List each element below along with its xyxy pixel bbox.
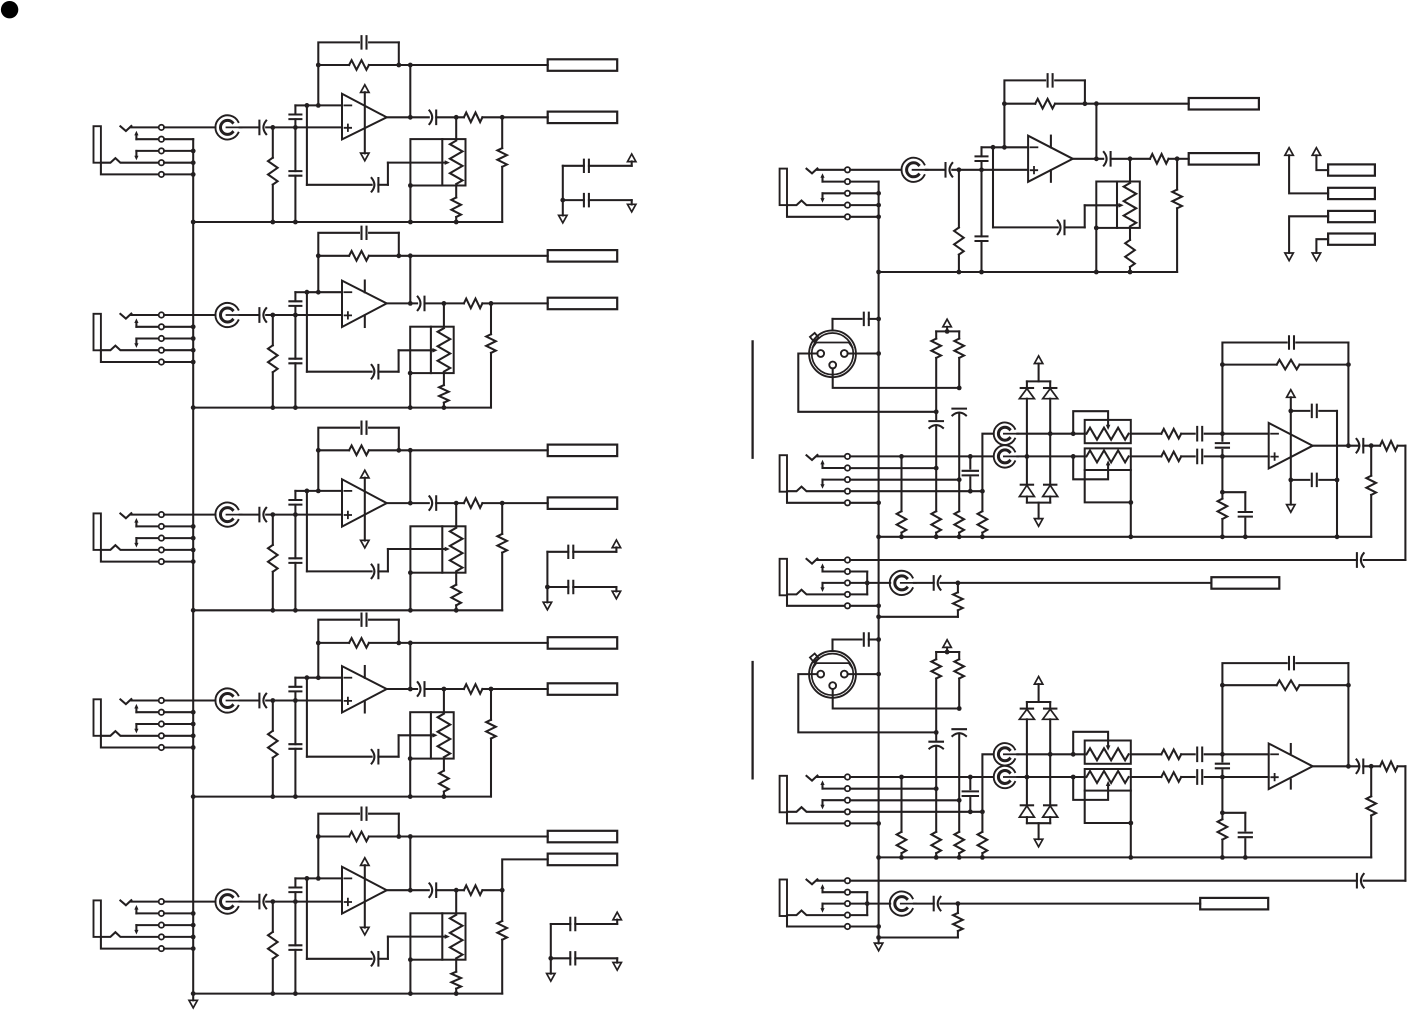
line input jack (mic ch 1) tip contact xyxy=(807,455,818,460)
aux 2 return line capacitor xyxy=(850,880,1357,882)
wire net to V- B xyxy=(1316,239,1328,253)
aux 2 row5 wire to bus xyxy=(850,925,879,927)
channel 1 send net label wire xyxy=(410,64,547,66)
channel 1 wiper feed capacitor xyxy=(372,178,379,192)
channel 6 node junction xyxy=(957,167,962,172)
channel 2 bus junctions xyxy=(191,324,196,364)
mic output shunt resistor (ch 1) xyxy=(1370,446,1372,476)
line input jack (mic ch 1) terminals xyxy=(845,454,850,506)
V+ supply arrow B xyxy=(1312,148,1320,156)
channel 1 input jack J1 sleeve wire xyxy=(101,163,159,175)
channel 1 output shunt resistor xyxy=(501,117,503,148)
left ground bus xyxy=(192,139,194,1000)
clamp diode lower x1050.2 (mic ch 2) xyxy=(1044,804,1056,806)
channel 3 wire cap to node xyxy=(266,514,295,516)
mic preamp supply tick bottom (ch 2) xyxy=(1290,780,1292,789)
aux jack 1 terminals xyxy=(845,557,850,608)
channel 5 decoupling capacitor to rail xyxy=(294,902,296,946)
phantom supply arrow 1 xyxy=(943,319,951,327)
V- supply arrow B xyxy=(1312,253,1320,261)
mic output series resistor (ch 2) xyxy=(1380,762,1398,772)
channel 5 level pot VR5 xyxy=(215,890,241,914)
phantom resistor left 2 xyxy=(935,652,937,659)
channel 5 jack wires to bus xyxy=(164,913,193,948)
channel 5 wire jack tip to pot xyxy=(164,901,215,903)
channel 3 output wire xyxy=(387,502,429,504)
channel 1 output wire xyxy=(387,116,429,118)
channel 3 feedback resistor xyxy=(318,449,349,451)
gain trim gang A box (mic ch 1) xyxy=(1085,420,1131,443)
aux jack 2 ring contact xyxy=(787,911,845,916)
channel 3 fader pot (boxed) xyxy=(410,526,465,572)
channel 2 input jack J2 tip contact xyxy=(120,314,131,319)
V+ supply arrow A xyxy=(1285,148,1293,156)
gang B wiper (mic ch 2) xyxy=(1073,777,1108,800)
mic output coupling capacitor (ch 1) xyxy=(1357,439,1364,453)
channel 3 wire jack tip to pot xyxy=(164,514,215,516)
channel 2 fader ground corner xyxy=(408,371,413,376)
decoupling group A supply wire xyxy=(562,166,564,200)
signal line A to limiter (mic ch 2) xyxy=(1017,753,1084,755)
channel 5 inverting input wire xyxy=(307,877,342,879)
channel 4 input jack J4 sleeve wire xyxy=(101,736,159,748)
channel 6 bus junctions xyxy=(876,191,881,219)
channel 3 wire cap to fader xyxy=(436,502,464,504)
channel 2 output net label wire xyxy=(491,302,548,304)
channel 1 output net label box xyxy=(548,112,618,124)
mic output series resistor (ch 1) xyxy=(1380,441,1398,451)
gain trim gang B box (mic ch 1) xyxy=(1085,448,1131,470)
mic preamp bypass capacitor lower (ch 1) xyxy=(1291,479,1310,481)
mic preamp feedback resistor (ch 2) xyxy=(1222,684,1276,686)
channel 1 positive supply arrow xyxy=(361,85,369,93)
channel 5 bus junctions xyxy=(191,911,196,951)
decoupling group C positive bypass capacitor xyxy=(551,923,571,925)
channel 1 input jack J1 tip contact xyxy=(120,126,131,131)
mic gain pot A (ch 1) xyxy=(994,423,1018,445)
channel 4 output coupling capacitor xyxy=(418,682,425,696)
aux jack 1 tip switch arm xyxy=(821,567,823,571)
channel 4 HF filter capacitor xyxy=(294,678,296,687)
mic preamp op-amp (ch 2) xyxy=(1222,753,1268,755)
mic output shunt resistor (ch 2) xyxy=(1370,766,1372,796)
XLR mic connector 1 xyxy=(809,330,856,377)
channel 2 input shunt resistor xyxy=(272,315,274,345)
clamp bottom bracket (mic ch 1) xyxy=(1027,502,1050,504)
channel 6 input jack J6 ring contact xyxy=(787,201,845,206)
channel 3 wiper feed capacitor xyxy=(372,565,379,579)
mic ch 2 jack row wires xyxy=(850,777,993,823)
aux jack 2 tip contact xyxy=(807,879,818,884)
channel 2 feedback resistor xyxy=(318,255,349,257)
mic dc block capacitor right 2 xyxy=(952,729,966,736)
XLR 1 shell capacitor to bus xyxy=(831,319,833,331)
channel 5 fader wiper arrow xyxy=(388,936,446,938)
mic 2 output to line-out corner wire xyxy=(1404,766,1406,880)
clamp diode upper x1026.9 (mic ch 1) xyxy=(1026,381,1028,388)
decoupling group C negative supply arrow xyxy=(613,963,621,971)
channel 2 input jack J2 sleeve body xyxy=(94,314,101,351)
channel 2 wire jack tip to pot xyxy=(164,314,215,316)
channel 1 input jack J1 tip switch arm xyxy=(135,135,137,139)
aux jack 1 tip contact xyxy=(807,559,818,564)
channel 6 input jack J6 sleeve body xyxy=(780,169,787,206)
channel 3 positive supply arrow xyxy=(361,470,369,478)
channel 4 fader wiper arrow xyxy=(399,734,434,736)
channel 4 wiper feed wire xyxy=(306,678,308,757)
channel 6 wiper feed wire xyxy=(992,147,994,227)
channel 2 supply tick top xyxy=(364,281,366,293)
channel 2 fader lower resistor xyxy=(443,373,445,385)
wire V+ to net B+ xyxy=(1289,155,1328,193)
channel 5 send net label wire xyxy=(410,835,547,837)
channel 5 output shunt resistor xyxy=(501,890,503,921)
XLR 1 pin 3 wire xyxy=(833,368,960,388)
channel 4 feedback to output wire xyxy=(409,643,411,689)
channel 3 output net label box xyxy=(548,497,618,509)
power net label boxes xyxy=(1328,164,1375,244)
channel 5 wire cap to node xyxy=(266,901,295,903)
aux jack 2 terminals xyxy=(845,878,850,929)
mic ground rail (ch 2) xyxy=(879,856,1372,858)
channel 4 fader ground corner xyxy=(408,756,413,761)
mic 1 output to aux corner wire xyxy=(1404,446,1406,560)
channel 3 bus junctions xyxy=(191,524,196,564)
gain pot A feed wire (mic ch 1) xyxy=(982,434,993,492)
aux 1 return line capacitor xyxy=(850,559,1357,561)
channel 4 supply tick bottom xyxy=(364,701,366,713)
channel 3 input jack J3 ring switch arm xyxy=(135,538,137,543)
channel 2 input jack J2 ring contact xyxy=(101,346,159,351)
channel 1 bus junctions xyxy=(191,149,196,177)
channel 5 positive supply arrow xyxy=(361,858,369,866)
channel 2 decoupling capacitor to rail xyxy=(294,315,296,359)
clamp V- arrow (mic ch 2) xyxy=(1034,839,1042,847)
input shunt resistor 3 (mic ch 2) xyxy=(958,800,960,832)
channel 6 wire to fader top xyxy=(1129,159,1131,182)
channel 4 output net label wire xyxy=(491,688,548,690)
channel 5 wiper feed capacitor xyxy=(372,952,379,966)
channel 2 input jack J2 tip switch arm xyxy=(135,322,137,326)
channel 6 fader pot (boxed) xyxy=(1096,182,1140,228)
channel 5 feedback capacitor xyxy=(318,814,359,879)
aux 1 ground return wire xyxy=(879,616,958,618)
mic preamp feedback capacitor (ch 2) xyxy=(1222,663,1286,754)
channel 5 feedback resistor xyxy=(318,835,349,837)
channel 5 input jack J5 ring switch arm xyxy=(135,925,137,930)
channel 2 jack wires to bus xyxy=(164,327,193,362)
channel 4 jack wires to bus xyxy=(164,712,193,747)
line input jack (mic ch 1) sleeve body xyxy=(780,455,787,492)
series resistor A (mic ch 1) xyxy=(1131,433,1162,435)
clamp top bracket (mic ch 1) xyxy=(1038,364,1040,382)
channel 1 supply rail line xyxy=(364,92,366,153)
channel 4 send net label wire xyxy=(410,642,547,644)
mic preamp op-amp (ch 1) xyxy=(1222,433,1268,435)
channel 6 feedback resistor xyxy=(1004,103,1035,105)
mic dc block capacitor right 1 xyxy=(952,409,966,416)
decoupling group B ground arrow xyxy=(543,602,551,610)
channel 1 output net label wire xyxy=(502,116,548,118)
gang A wiper (mic ch 1) xyxy=(1073,411,1108,434)
mic gain pot A (ch 2) xyxy=(994,743,1018,765)
channel 2 output wire xyxy=(387,302,417,304)
channel 6 output shunt resistor xyxy=(1176,159,1178,190)
channel 4 input jack J4 tip switch arm xyxy=(135,708,137,712)
channel 5 HF filter capacitor xyxy=(294,878,296,887)
monitor channel send net label wire xyxy=(1097,103,1189,105)
channel 5 output coupling capacitor xyxy=(429,883,436,897)
decoupling group B negative supply arrow xyxy=(612,591,620,599)
mic dc block capacitor left 2 xyxy=(935,732,937,739)
channel 2 send net label box xyxy=(548,250,618,262)
mic ch 1 jack row wires xyxy=(850,456,993,502)
channel 5 op-amp U5 xyxy=(342,867,387,914)
channel 3 input jack J3 terminals xyxy=(159,512,164,564)
channel 3 feedback to output wire xyxy=(409,450,411,503)
line input jack (mic ch 2) tip switch arm xyxy=(821,784,823,788)
channel 3 output coupling capacitor xyxy=(429,496,436,510)
channel 3 coupling capacitor xyxy=(240,514,260,516)
XLR 1 pin 2 wire xyxy=(798,354,936,412)
V- supply arrow A xyxy=(1285,253,1293,261)
channel 3 send net label box xyxy=(548,445,618,457)
aux jack 1 sleeve body xyxy=(780,559,787,596)
gang shield box (mic ch 2) xyxy=(1085,791,1131,823)
series capacitor A (mic ch 1) xyxy=(1197,427,1202,441)
channel 5 input shunt resistor xyxy=(272,902,274,932)
channel 5 input jack J5 tip contact xyxy=(120,900,131,905)
interstage capacitor (mic ch 1) xyxy=(1221,434,1223,441)
channel 3 op-amp U3 xyxy=(342,479,387,526)
channel 4 input jack J4 tip contact xyxy=(120,699,131,704)
line input jack (mic ch 1) tip switch arm xyxy=(821,464,823,468)
channel 2 level pot VR2 xyxy=(215,303,241,327)
line input jack (mic ch 2) ring switch arm xyxy=(821,800,823,805)
interstage capacitor (mic ch 2) xyxy=(1221,754,1223,761)
row1-row4 capacitor (mic ch 1) xyxy=(969,456,971,468)
channel 1 feedback resistor xyxy=(318,64,349,66)
noninverting bias capacitor (mic ch 2) xyxy=(1222,812,1245,814)
channel 1 op-amp U1 xyxy=(342,94,387,140)
noninverting bias resistor (mic ch 2) xyxy=(1221,777,1223,813)
decoupling group B positive supply arrow xyxy=(612,540,620,548)
channel 6 input jack J6 tip contact xyxy=(807,168,818,173)
channel 6 supply tick top xyxy=(1050,136,1052,148)
channel 2 wiper feed wire xyxy=(306,292,308,372)
aux 2 row3 wire to pot xyxy=(850,903,890,905)
channel 1 input shunt resistor xyxy=(272,127,274,157)
channel 1 node junction xyxy=(270,125,275,130)
channel 2 wire cap to node xyxy=(266,314,295,316)
aux 2 net label wire xyxy=(958,903,1200,905)
aux 1 net label box xyxy=(1211,577,1279,589)
clamp diode upper x1050.2 (mic ch 2) xyxy=(1049,702,1051,709)
phantom supply arrow 2 xyxy=(943,640,951,648)
channel 4 fader pot (boxed) xyxy=(410,712,454,758)
channel 6 input shunt resistor xyxy=(958,170,960,228)
channel 6 wire cap to node xyxy=(952,169,981,171)
channel 2 fader pot (boxed) xyxy=(410,327,454,373)
decoupling group B positive bypass capacitor xyxy=(547,551,568,553)
mic preamp output (ch 2) xyxy=(1313,765,1360,767)
channel 2 wiper feed elbow wire xyxy=(378,371,398,373)
input shunt resistor 4 (mic ch 1) xyxy=(981,491,983,511)
channel 5 feedback to output wire xyxy=(409,837,411,891)
channel 1 input jack J1 ring contact xyxy=(101,158,159,163)
channel 3 wiper feed elbow wire xyxy=(378,570,388,572)
channel 3 decoupling capacitor to rail xyxy=(294,515,296,559)
signal line B to limiter (mic ch 2) xyxy=(1017,776,1084,778)
decoupling group C supply wire xyxy=(550,924,552,958)
decoupling group A positive supply arrow xyxy=(628,154,636,162)
aux jack 1 ring contact xyxy=(787,590,845,595)
channel 1 send net label box xyxy=(548,59,618,71)
decoupling group C positive supply arrow xyxy=(613,912,621,920)
channel 6 output wire xyxy=(1073,158,1103,160)
clamp diode lower x1050.2 (mic ch 1) xyxy=(1044,484,1056,486)
channel 2 output coupling capacitor xyxy=(418,297,425,311)
channel 6 fader lower resistor xyxy=(1129,228,1131,240)
channel 4 send net label box xyxy=(548,637,618,649)
input shunt resistor 3 (mic ch 1) xyxy=(958,480,960,512)
channel 1 fader wiper arrow xyxy=(388,162,446,164)
channel 2 wire to fader top xyxy=(443,303,445,326)
channel 1 feedback capacitor xyxy=(318,42,359,105)
aux 1 rows 2-4 bracket xyxy=(850,570,867,572)
aux jack 2 tip switch arm xyxy=(821,888,823,892)
channel 4 wire cap to node xyxy=(266,699,295,701)
channel 2 HF filter capacitor xyxy=(294,292,296,301)
clamp diode lower x1026.9 (mic ch 2) xyxy=(1021,804,1033,806)
channel 1 input jack J1 ring switch arm xyxy=(135,151,137,156)
channel 5 wiper feed wire xyxy=(306,878,308,958)
input shunt resistor 1 (mic ch 2) xyxy=(900,777,902,832)
channel 5 output net label wire xyxy=(502,859,548,890)
channel 6 input jack J6 tip switch arm xyxy=(821,177,823,181)
clamp diode lower x1026.9 (mic ch 1) xyxy=(1021,484,1033,486)
right ground bus xyxy=(878,182,880,944)
decoupling group B supply wire xyxy=(546,552,548,587)
aux 1 net label wire xyxy=(958,582,1212,584)
channel 1 output coupling capacitor xyxy=(429,111,436,125)
channel 3 feedback capacitor xyxy=(318,428,359,491)
line input jack (mic ch 1) ring contact xyxy=(787,487,845,492)
channel 3 ground rail xyxy=(193,609,502,611)
channel 5 input jack J5 terminals xyxy=(159,899,164,951)
channel 2 input jack J2 ring switch arm xyxy=(135,339,137,344)
mic gain pot B (ch 2) xyxy=(994,766,1018,788)
series resistor B (mic ch 1) xyxy=(1131,455,1162,457)
gain trim gang B box (mic ch 2) xyxy=(1085,769,1131,791)
channel 2 supply tick bottom xyxy=(364,315,366,327)
channel 3 send net label wire xyxy=(410,449,547,451)
monitor channel output net label box xyxy=(1189,153,1259,165)
input shunt resistor 2 (mic ch 1) xyxy=(935,468,937,511)
channel 2 feedback capacitor xyxy=(318,233,359,292)
channel 6 input jack J6 sleeve wire xyxy=(787,205,845,217)
aux level pot 1 xyxy=(890,571,916,595)
noninverting bias capacitor (mic ch 1) xyxy=(1222,491,1245,493)
channel 2 input jack J2 terminals xyxy=(159,312,164,364)
channel 2 output net label box xyxy=(548,298,618,310)
row1-row4 capacitor (mic ch 2) xyxy=(969,777,971,789)
XLR 1 pin 1 wire to bus xyxy=(848,352,879,354)
channel 6 wire jack tip to pot xyxy=(850,169,901,171)
wire net to V- A xyxy=(1289,216,1328,253)
channel 5 wire cap to fader xyxy=(436,889,464,891)
clamp top bracket (mic ch 2) xyxy=(1038,684,1040,702)
channel 4 output net label box xyxy=(548,683,618,695)
channel 6 feedback to output wire xyxy=(1095,104,1097,159)
channel 6 wiper feed capacitor xyxy=(1058,221,1065,235)
channel 2 send net label wire xyxy=(410,255,547,257)
mic dc block capacitor left 1 xyxy=(935,412,937,419)
channel 4 input jack J4 ring contact xyxy=(101,731,159,736)
series capacitor A (mic ch 2) xyxy=(1197,748,1202,762)
mic preamp supply arrows (ch 1) xyxy=(1287,390,1295,398)
channel 4 ground rail xyxy=(193,796,491,798)
channel 3 node junction xyxy=(270,512,275,517)
channel 6 fader wiper arrow xyxy=(1085,204,1120,206)
channel 3 wiper feed wire xyxy=(306,491,308,572)
channel 4 wire jack tip to pot xyxy=(164,699,215,701)
channel 4 input jack J4 ring switch arm xyxy=(135,724,137,729)
channel 3 fader wiper arrow xyxy=(388,548,446,550)
channel 2 feedback to output wire xyxy=(409,256,411,304)
gang B wiper (mic ch 1) xyxy=(1073,456,1108,479)
channel 5 send net label box xyxy=(548,831,618,843)
decoupling group C ground arrow xyxy=(547,974,555,982)
decoupling group A negative supply arrow xyxy=(628,204,636,212)
line input jack (mic ch 1) sleeve wire xyxy=(787,492,845,503)
gain trim gang A box (mic ch 2) xyxy=(1085,741,1131,764)
channel 6 build-out resistor xyxy=(1150,154,1169,164)
gang A wiper (mic ch 2) xyxy=(1073,732,1108,755)
channel 6 coupling capacitor xyxy=(926,169,946,171)
channel 1 negative supply arrow xyxy=(361,153,369,161)
channel 4 wiper feed capacitor xyxy=(372,750,379,764)
decoupling group A ground arrow xyxy=(559,215,567,223)
channel 2 build-out resistor xyxy=(464,299,483,309)
channel 3 jack wires to bus xyxy=(164,526,193,561)
channel 4 supply tick top xyxy=(364,666,366,678)
channel 3 HF filter capacitor xyxy=(294,491,296,500)
channel 4 output shunt resistor xyxy=(490,689,492,720)
channel 5 supply rail line xyxy=(364,865,366,927)
input junctions (mic ch 2) xyxy=(1220,752,1225,757)
channel 2 node junction xyxy=(270,313,275,318)
channel 3 fader lower resistor xyxy=(455,573,457,585)
mic gain pot B (ch 1) xyxy=(994,445,1018,467)
channel 6 jack wires to bus xyxy=(850,182,879,217)
line input jack (mic ch 2) sleeve body xyxy=(780,776,787,813)
channel 6 input jack J6 terminals xyxy=(845,167,850,219)
mic preamp feedback resistor (ch 1) xyxy=(1222,364,1276,366)
mic preamp bypass capacitor upper (ch 1) xyxy=(1291,410,1310,412)
channel 2 wire cap to fader xyxy=(425,302,464,304)
aux 2 ground return wire xyxy=(879,936,958,938)
channel 5 input jack J5 sleeve wire xyxy=(101,937,159,949)
aux 1 row5 wire to bus xyxy=(850,605,879,607)
channel 5 wire to fader top xyxy=(455,890,457,913)
channel 3 wire to fader top xyxy=(455,503,457,526)
channel 6 decoupling capacitor to rail xyxy=(980,170,982,237)
channel 1 fader ground corner xyxy=(408,183,413,188)
channel 6 input jack J6 ring switch arm xyxy=(821,193,823,198)
aux 2 shunt resistor xyxy=(957,904,959,913)
monitor channel send net label box xyxy=(1189,98,1259,110)
